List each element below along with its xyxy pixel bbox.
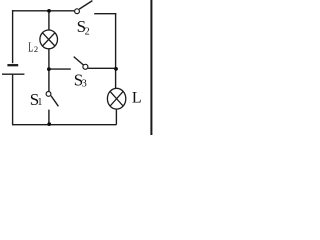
svg-text:L: L bbox=[132, 89, 142, 106]
svg-text:3: 3 bbox=[82, 78, 87, 89]
svg-text:2: 2 bbox=[85, 27, 90, 38]
svg-text:2: 2 bbox=[34, 44, 38, 54]
svg-text:L: L bbox=[28, 40, 33, 55]
svg-text:1: 1 bbox=[37, 97, 42, 108]
